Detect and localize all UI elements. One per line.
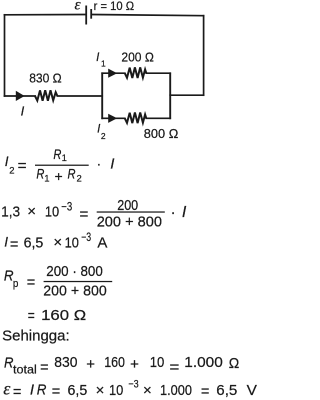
svg-text:−3: −3	[128, 378, 138, 390]
svg-text:1,3: 1,3	[1, 203, 20, 220]
svg-text:1.000: 1.000	[184, 354, 223, 371]
svg-text:Sehingga:: Sehingga:	[2, 328, 70, 345]
current arrow I on main wire	[16, 91, 25, 101]
svg-text:r = 10 Ω: r = 10 Ω	[94, 0, 135, 13]
battery short plate	[90, 9, 92, 19]
svg-text:1: 1	[44, 173, 49, 184]
svg-text:6,5: 6,5	[216, 382, 237, 399]
svg-text:I: I	[182, 204, 187, 221]
svg-text:×: ×	[143, 382, 152, 399]
svg-text:=: =	[169, 359, 179, 376]
wire bottom branch left	[102, 117, 125, 119]
svg-text:+: +	[55, 168, 63, 184]
current arrow I2 bottom branch	[108, 114, 117, 123]
equation line 5: = 160 ohm	[28, 307, 86, 324]
svg-text:830: 830	[54, 354, 77, 371]
svg-text:Ω: Ω	[229, 355, 240, 372]
svg-text:2: 2	[77, 173, 82, 184]
equation line 4: Rp = 200.800/(200+800)	[4, 263, 112, 300]
svg-text:+: +	[86, 356, 95, 373]
svg-text:160: 160	[104, 354, 125, 371]
wire after 830 resistor to junction	[57, 95, 102, 97]
resistor 200 ohm zigzag	[125, 67, 147, 78]
svg-text:200 · 800: 200 · 800	[46, 263, 103, 280]
svg-text:I: I	[5, 154, 9, 169]
svg-text:R: R	[53, 147, 61, 162]
svg-text:1: 1	[62, 153, 67, 164]
wire output from parallel block	[170, 94, 203, 96]
svg-text:·: ·	[97, 157, 102, 172]
svg-text:R: R	[68, 167, 76, 182]
wire main bottom left segment	[5, 95, 36, 97]
svg-text:−3: −3	[61, 201, 72, 213]
node bar left junction	[101, 72, 103, 119]
svg-text:=: =	[52, 383, 61, 400]
svg-text:p: p	[13, 278, 19, 290]
equation line 8: emf = I R = 6,5 x 10^-3 x 1.000 = 6,5 V	[3, 378, 257, 400]
equation line 2: 1,3 x 10^-3 = 200/(200+800) . I	[1, 197, 187, 231]
svg-text:=: =	[13, 383, 22, 400]
svg-text:1.000: 1.000	[160, 382, 192, 399]
wire bottom branch right	[146, 117, 170, 119]
svg-text:total: total	[13, 365, 37, 377]
wire top branch left	[102, 72, 125, 74]
svg-text:×: ×	[27, 203, 36, 220]
svg-text:160: 160	[41, 307, 69, 324]
resistor 830 ohm zigzag	[35, 90, 57, 101]
resistor 800 ohm zigzag	[125, 113, 147, 124]
svg-text:V: V	[247, 382, 257, 399]
svg-text:10: 10	[150, 354, 165, 371]
wire top left to battery	[5, 14, 86, 16]
node bar right junction	[169, 72, 171, 119]
svg-text:800 Ω: 800 Ω	[144, 126, 179, 141]
svg-text:10: 10	[45, 203, 59, 220]
svg-text:I: I	[21, 103, 25, 118]
svg-text:200: 200	[117, 197, 138, 214]
svg-text:A: A	[97, 235, 107, 252]
battery long plate (emf positive)	[85, 6, 87, 25]
wire left vertical	[4, 15, 6, 96]
current arrow I1 top branch	[108, 69, 117, 78]
svg-text:=: =	[10, 236, 19, 253]
wire battery to top right corner	[92, 15, 204, 16]
svg-text:=: =	[28, 307, 35, 324]
svg-text:1: 1	[101, 58, 106, 68]
equation line 7: Rtotal = 830 + 160 + 10 = 1.000 ohm	[4, 354, 239, 377]
svg-text:−3: −3	[81, 232, 91, 244]
svg-text:I: I	[4, 234, 8, 249]
svg-text:6,5: 6,5	[68, 382, 88, 399]
svg-text:=: =	[18, 158, 27, 175]
svg-text:ε: ε	[75, 0, 82, 14]
svg-text:830 Ω: 830 Ω	[29, 70, 62, 85]
svg-text:I: I	[110, 155, 114, 172]
svg-text:2: 2	[9, 165, 14, 176]
svg-text:10: 10	[109, 382, 123, 399]
svg-text:2: 2	[101, 131, 106, 141]
svg-text:I: I	[30, 382, 34, 399]
svg-text:R: R	[37, 382, 47, 399]
svg-text:10: 10	[65, 234, 79, 251]
svg-text:×: ×	[53, 234, 62, 251]
svg-text:+: +	[130, 356, 139, 373]
svg-text:·: ·	[171, 204, 176, 221]
svg-text:6,5: 6,5	[24, 234, 44, 251]
svg-text:200 + 800: 200 + 800	[97, 214, 162, 231]
svg-text:ε: ε	[3, 378, 11, 398]
equation line 3: I = 6,5 x 10^-3 A	[4, 232, 107, 253]
svg-text:200 + 800: 200 + 800	[43, 282, 106, 299]
wire right vertical	[203, 16, 205, 96]
svg-text:=: =	[201, 383, 210, 400]
svg-text:×: ×	[96, 382, 105, 399]
svg-text:200 Ω: 200 Ω	[121, 50, 154, 65]
svg-text:Ω: Ω	[74, 307, 86, 324]
equation line 1: I2 = R1/(R1+R2) . I	[5, 147, 115, 185]
svg-text:=: =	[27, 274, 36, 291]
svg-text:I: I	[96, 52, 100, 64]
svg-text:=: =	[79, 206, 88, 223]
wire top branch right	[146, 72, 170, 74]
svg-text:=: =	[40, 359, 49, 376]
